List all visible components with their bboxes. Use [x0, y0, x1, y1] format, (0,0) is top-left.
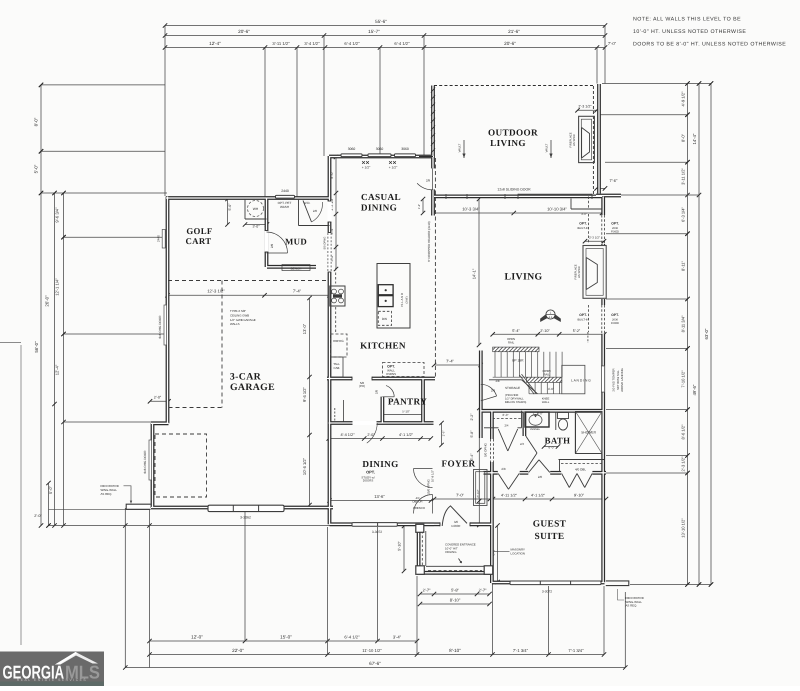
svg-text:OVENS: OVENS [386, 372, 396, 376]
garage side door 2440 [162, 230, 165, 249]
svg-text:8'-11": 8'-11" [680, 260, 685, 271]
right wing wall [606, 581, 629, 586]
svg-text:2440: 2440 [157, 235, 161, 242]
svg-text:8x8 OHG DOOR: 8x8 OHG DOOR [143, 450, 147, 474]
svg-text:(9'H): (9'H) [359, 384, 365, 388]
svg-text:OPT.: OPT. [579, 313, 587, 317]
svg-text:10'-8 1/2": 10'-8 1/2" [431, 470, 435, 482]
left dimension columns [40, 85, 42, 526]
svg-text:1/2" GWB GARAGE: 1/2" GWB GARAGE [230, 318, 256, 322]
outdoor fireplace dim [578, 109, 597, 111]
svg-text:SHOWER: SHOWER [581, 431, 596, 435]
bath vestibule door V [529, 460, 539, 473]
sliding door panels [518, 194, 592, 196]
opening jamb caps [351, 377, 353, 381]
5/0 opening dashes guest wall [489, 439, 491, 462]
svg-text:2'-3 1/2": 2'-3 1/2" [578, 105, 592, 109]
svg-text:+ 1/2": + 1/2" [389, 166, 398, 170]
svg-text:3060: 3060 [348, 147, 356, 151]
guest closet bifold VV [562, 474, 570, 488]
casual dining interior dims [335, 157, 337, 269]
svg-text:GOLF: GOLF [186, 226, 212, 236]
dining windows 3-3072 [352, 523, 397, 527]
svg-text:KITCHEN: KITCHEN [360, 341, 406, 351]
svg-text:2'-7": 2'-7" [423, 588, 431, 593]
svg-text:4'-1 1/2": 4'-1 1/2" [531, 493, 546, 497]
svg-text:WALLS: WALLS [230, 322, 240, 326]
right horizontal dim lines [602, 83, 711, 85]
door golf cart to mud [267, 232, 288, 253]
svg-text:6'-3 1/4": 6'-3 1/4" [680, 207, 685, 222]
svg-text:6'-0": 6'-0" [503, 413, 509, 417]
svg-text:W.D.: W.D. [304, 201, 311, 205]
svg-text:VESSEL: VESSEL [530, 428, 541, 431]
svg-text:5'-2": 5'-2" [573, 329, 581, 333]
wd closet lines [298, 199, 300, 226]
svg-text:DBL DR: DBL DR [413, 501, 423, 504]
svg-text:MUD: MUD [285, 237, 307, 247]
svg-text:7'-4": 7'-4" [446, 358, 454, 363]
svg-text:AS SPEC: AS SPEC [573, 134, 576, 146]
kitchen nook divider [343, 400, 345, 422]
svg-text:DINING: DINING [362, 459, 398, 469]
svg-text:12x8 SLIDING DOOR: 12x8 SLIDING DOOR [497, 188, 531, 192]
svg-text:CART: CART [185, 236, 211, 246]
svg-text:UP 19R: UP 19R [512, 359, 524, 363]
svg-text:BENCH: BENCH [291, 266, 302, 270]
svg-text:DOORS: DOORS [363, 479, 374, 483]
kitchen nook dim row [329, 438, 431, 440]
svg-text:10'-10 3/4": 10'-10 3/4" [547, 206, 567, 211]
svg-text:2'-3 1/2": 2'-3 1/2" [589, 236, 600, 240]
stair dims [493, 333, 605, 335]
svg-text:WALL: WALL [542, 401, 550, 404]
section marker diamond [546, 310, 555, 319]
svg-text:9'-6 3/4": 9'-6 3/4" [55, 207, 60, 223]
svg-text:CEILING GWB: CEILING GWB [230, 313, 249, 317]
svg-text:FOYER: FOYER [442, 459, 476, 469]
svg-text:+5'-1/2": +5'-1/2" [477, 489, 480, 498]
svg-text:DINING: DINING [361, 203, 397, 213]
svg-text:LIVING: LIVING [490, 138, 526, 148]
svg-text:4'-6": 4'-6" [548, 387, 554, 391]
svg-text:RAIL: RAIL [508, 341, 515, 345]
garage car bay dashed rect [155, 434, 207, 497]
casual dining windows 3060 [341, 154, 362, 157]
corner niche living NE [570, 199, 572, 210]
garage bottom door band [208, 505, 284, 511]
svg-text:2'-3 1/2": 2'-3 1/2" [680, 456, 685, 471]
top extension lines [164, 26, 166, 197]
range [330, 286, 345, 306]
svg-text:2'-0": 2'-0" [154, 395, 162, 399]
svg-text:2/4: 2/4 [505, 424, 509, 428]
svg-text:VAULT: VAULT [458, 143, 462, 152]
wd closet door [303, 201, 312, 223]
svg-text:OPT.: OPT. [611, 313, 619, 317]
wd closet top bath [493, 418, 522, 420]
right dimension columns [687, 84, 689, 585]
svg-text:2/4: 2/4 [520, 442, 524, 446]
door opening gaps (white) [265, 231, 269, 253]
svg-text:3'-11 1/2": 3'-11 1/2" [272, 41, 290, 46]
svg-text:55'-6": 55'-6" [375, 19, 387, 24]
svg-text:7'-1 3/4": 7'-1 3/4" [513, 648, 529, 653]
svg-text:6'-4 1/2": 6'-4 1/2" [344, 41, 360, 46]
svg-text:GARAGE: GARAGE [230, 382, 275, 393]
storage door [481, 384, 497, 396]
svg-text:5'-0": 5'-0" [228, 203, 232, 211]
opt wall ovens [383, 363, 425, 377]
svg-text:PANTRY: PANTRY [388, 397, 427, 407]
vault arrows [463, 140, 465, 158]
svg-text:14'-4": 14'-4" [692, 133, 697, 144]
svg-text:12'-0": 12'-0" [191, 634, 203, 639]
svg-text:8'-0": 8'-0" [680, 133, 685, 142]
svg-text:5/0 OPNG: 5/0 OPNG [323, 237, 326, 250]
svg-text:12'-4": 12'-4" [209, 41, 221, 46]
svg-text:BELOW STAIRS): BELOW STAIRS) [505, 401, 526, 404]
svg-text:1/2" DRYWALL: 1/2" DRYWALL [505, 397, 524, 400]
svg-text:3060: 3060 [376, 147, 384, 151]
svg-text:11'-10 1/2": 11'-10 1/2" [362, 648, 382, 653]
svg-text:(PROVIDE: (PROVIDE [505, 394, 518, 397]
svg-text:BUILT-IN: BUILT-IN [577, 319, 588, 322]
svg-text:LIVING: LIVING [504, 272, 542, 283]
svg-text:10'-6 1/2": 10'-6 1/2" [302, 457, 307, 475]
porch dimension rows [420, 593, 490, 595]
svg-text:13'-0": 13'-0" [302, 323, 307, 334]
svg-text:5/0 OPNG: 5/0 OPNG [484, 442, 488, 456]
front entry door peak [442, 506, 467, 526]
left wing wall [126, 504, 150, 509]
svg-text:9'-6 1/2": 9'-6 1/2" [302, 387, 307, 402]
garage interior dims [168, 294, 330, 296]
svg-text:49'-6": 49'-6" [692, 384, 697, 395]
property line left [20, 345, 22, 645]
foyer-bath dim row [434, 498, 606, 500]
svg-text:20'-6": 20'-6" [238, 29, 250, 34]
svg-text:2/8: 2/8 [496, 379, 500, 383]
svg-text:DOORS TO BE 8'-0" HT. UNL: DOORS TO BE 8'-0" HT. UNLESS NOTED OTHER… [633, 42, 786, 48]
thin wall segment CD top right [419, 156, 433, 158]
svg-text:REAL ESTATE SERVICES: REAL ESTATE SERVICES [17, 678, 87, 682]
left bottom small dims [48, 483, 50, 526]
storage under stairs [489, 379, 522, 381]
living dims [434, 212, 603, 214]
svg-text:5'-0": 5'-0" [48, 485, 53, 493]
svg-text:2440: 2440 [281, 189, 289, 193]
door casual dining to living [417, 183, 433, 190]
svg-text:56'-0": 56'-0" [34, 341, 39, 353]
svg-text:4'-4 1/2": 4'-4 1/2" [340, 433, 355, 437]
svg-text:AS REQ.: AS REQ. [626, 604, 638, 608]
living fireplace [583, 246, 606, 299]
svg-text:5'-4": 5'-4" [512, 329, 520, 333]
svg-text:WH: WH [253, 207, 259, 211]
guest suite windows [510, 581, 601, 585]
svg-text:4'-9 1/2": 4'-9 1/2" [680, 91, 685, 106]
svg-text:7'-0": 7'-0" [456, 492, 464, 497]
svg-text:DOOR: DOOR [452, 524, 461, 528]
svg-text:10'-0" HT. UNLESS NOTED OT: 10'-0" HT. UNLESS NOTED OTHERWISE [633, 29, 746, 35]
svg-text:6'-4 1/2": 6'-4 1/2" [394, 41, 410, 46]
mud window 2440 [276, 195, 295, 198]
svg-text:4'-11 1/2": 4'-11 1/2" [501, 493, 518, 497]
svg-text:2'-2": 2'-2" [470, 413, 474, 421]
svg-text:FRENCH: FRENCH [413, 506, 425, 510]
dining interior dim [330, 500, 432, 502]
svg-text:15'-7": 15'-7" [368, 29, 380, 34]
svg-text:2/8: 2/8 [501, 467, 505, 471]
svg-text:7'-0": 7'-0" [608, 41, 617, 46]
svg-text:2636: 2636 [612, 319, 619, 322]
hall dim line [478, 408, 480, 525]
svg-text:1'-4": 1'-4" [418, 204, 421, 209]
garage overhead doors on left wall [164, 305, 167, 345]
svg-text:5'-8": 5'-8" [470, 430, 474, 438]
svg-text:3-CAR: 3-CAR [230, 372, 262, 383]
fridge [331, 334, 348, 357]
svg-text:REFRG: REFRG [333, 339, 344, 343]
outdoor living fireplace [579, 116, 595, 162]
svg-text:2/8: 2/8 [491, 389, 495, 393]
svg-text:3'-11 1/2": 3'-11 1/2" [680, 168, 685, 185]
svg-text:SUITE: SUITE [535, 532, 565, 542]
svg-text:20'-6": 20'-6" [504, 41, 516, 46]
french doors dining [414, 469, 433, 488]
svg-text:8'-6 1/2": 8'-6 1/2" [680, 424, 685, 439]
svg-text:2/8: 2/8 [538, 475, 542, 479]
pantry door [386, 386, 394, 397]
svg-text:CAB: CAB [334, 366, 340, 370]
svg-text:BUILT-IN: BUILT-IN [577, 227, 588, 230]
svg-text:LOCATION: LOCATION [511, 551, 525, 555]
svg-text:FIXED: FIXED [611, 231, 619, 234]
GeorgiaMLS logo [0, 652, 104, 687]
svg-text:3'-0": 3'-0" [252, 225, 260, 229]
svg-text:I S L A N D: I S L A N D [400, 293, 404, 307]
svg-text:TYPE-X 5/8": TYPE-X 5/8" [230, 309, 246, 313]
svg-text:9'-10": 9'-10" [574, 492, 585, 497]
svg-text:GUEST: GUEST [533, 520, 567, 530]
left horizontal dim lines [41, 84, 165, 86]
svg-text:AS REQ.: AS REQ. [101, 492, 113, 496]
svg-text:STORAGE: STORAGE [505, 386, 520, 390]
svg-text:5'-0": 5'-0" [34, 164, 39, 173]
water heater [248, 201, 264, 217]
svg-text:OPT.: OPT. [579, 222, 587, 226]
svg-text:2/8: 2/8 [375, 390, 379, 394]
foyer width dim [434, 364, 481, 366]
svg-text:4.1: 4.1 [549, 316, 553, 319]
stair window right wall [601, 366, 604, 392]
svg-text:3'-0": 3'-0" [581, 212, 587, 216]
svg-text:VAULT: VAULT [545, 143, 549, 152]
svg-text:6'-4 1/2": 6'-4 1/2" [344, 634, 360, 639]
outdoor living left wall (screened) [151, 84, 621, 583]
bottom extension lines [124, 508, 126, 668]
svg-text:FIXED: FIXED [611, 322, 619, 325]
svg-text:AS SPEC: AS SPEC [578, 266, 581, 278]
svg-text:BATH: BATH [545, 436, 571, 446]
svg-text:26'-0": 26'-0" [45, 295, 50, 307]
svg-text:OPT.: OPT. [366, 469, 375, 474]
svg-text:+ 1/2": + 1/2" [362, 166, 371, 170]
hatch ticks on outdoor living left wall [431, 87, 435, 92]
guest closet box [559, 459, 605, 461]
svg-text:6'-0": 6'-0" [549, 446, 555, 450]
svg-text:7'-1 3/4": 7'-1 3/4" [568, 648, 584, 653]
kitchen counter dashed [335, 268, 337, 284]
svg-text:8'-0": 8'-0" [537, 411, 543, 415]
outdoor living top dashed wall [434, 85, 593, 87]
wall jog dim right [597, 187, 606, 189]
svg-text:2'-0": 2'-0" [34, 514, 42, 518]
shower [576, 412, 603, 454]
svg-text:10'-3 3/4": 10'-3 3/4" [462, 206, 480, 211]
mud small dims [245, 224, 267, 226]
porch right dim [497, 526, 499, 583]
svg-text:67'-6": 67'-6" [369, 661, 381, 666]
svg-text:DW: DW [382, 317, 387, 321]
svg-text:OUTDOOR: OUTDOOR [488, 128, 538, 138]
svg-text:63'-0": 63'-0" [704, 328, 709, 339]
stair treads [494, 352, 496, 377]
svg-text:12'-4": 12'-4" [55, 364, 60, 375]
bath inner door chevron [526, 436, 537, 453]
porch left dim [403, 526, 405, 571]
svg-text:(3'x8'): (3'x8') [406, 296, 409, 303]
svg-text:2/8: 2/8 [426, 179, 431, 183]
svg-text:6" DROPPED HEADER (3x10): 6" DROPPED HEADER (3x10) [427, 221, 431, 262]
svg-text:2636: 2636 [612, 227, 619, 230]
svg-text:2/8: 2/8 [313, 209, 317, 213]
svg-text:12'-1 1/4": 12'-1 1/4" [55, 278, 60, 296]
svg-text:8'-0": 8'-0" [34, 117, 39, 126]
svg-text:15'-0": 15'-0" [280, 634, 292, 639]
svg-text:WASH: WASH [280, 205, 289, 209]
svg-text:5'-8": 5'-8" [451, 588, 459, 593]
svg-text:3-3062: 3-3062 [240, 516, 251, 520]
svg-text:21'-6": 21'-6" [508, 29, 520, 34]
svg-text:2'-7": 2'-7" [479, 588, 487, 593]
landing [562, 365, 585, 394]
svg-text:14'-1": 14'-1" [472, 268, 477, 279]
sidelight window foyer [474, 470, 488, 506]
opt door dashes kitchen nook [334, 408, 336, 421]
svg-text:12'-3 1/2": 12'-3 1/2" [207, 289, 225, 294]
svg-text:RAIL: RAIL [543, 372, 550, 376]
svg-text:5'-10": 5'-10" [402, 410, 410, 414]
svg-text:3-3072: 3-3072 [372, 530, 382, 534]
svg-text:3060: 3060 [401, 147, 409, 151]
svg-text:L A N D I N G: L A N D I N G [571, 379, 591, 383]
svg-text:CEILING: CEILING [445, 550, 457, 554]
opt fixed window dashes on right wall [601, 215, 603, 244]
svg-text:2/8: 2/8 [270, 244, 274, 249]
opt built-in dashed fronts [588, 214, 590, 244]
svg-text:8x8 OHG DOOR: 8x8 OHG DOOR [158, 315, 162, 339]
dropped header dashed line [434, 158, 436, 377]
svg-text:5'-10": 5'-10" [398, 541, 402, 551]
svg-text:3-3072: 3-3072 [542, 590, 552, 594]
svg-text:4'-1 1/2": 4'-1 1/2" [399, 433, 414, 437]
svg-text:3'-4": 3'-4" [393, 634, 402, 639]
svg-text:7'-10 1/2": 7'-10 1/2" [680, 370, 685, 388]
svg-text:4/0 DBL: 4/0 DBL [575, 468, 586, 472]
svg-text:2'-10": 2'-10" [540, 329, 550, 333]
svg-text:NOTE: ALL WALLS THIS LEVEL: NOTE: ALL WALLS THIS LEVEL TO BE [633, 17, 741, 23]
svg-text:1'-6": 1'-6" [442, 431, 446, 437]
svg-text:13'-6": 13'-6" [374, 494, 385, 499]
svg-text:7'-4": 7'-4" [293, 289, 302, 294]
svg-text:OPT.: OPT. [611, 222, 619, 226]
garage ceiling dashed lines [168, 280, 329, 282]
svg-text:8'-10": 8'-10" [449, 648, 461, 653]
top dimension lines [165, 25, 605, 27]
svg-text:CASUAL: CASUAL [361, 192, 401, 202]
stair break line [520, 375, 535, 394]
pantry shelf line [384, 414, 423, 416]
bottom dimension rows [150, 640, 418, 642]
kitchen island [377, 264, 410, 329]
svg-text:3'-4 1/2": 3'-4 1/2" [304, 41, 320, 46]
svg-text:22'-0": 22'-0" [232, 648, 244, 653]
svg-text:13'-10 1/2": 13'-10 1/2" [680, 518, 685, 538]
svg-text:7'-6": 7'-6" [610, 178, 618, 183]
svg-text:8'-10": 8'-10" [450, 598, 461, 603]
svg-text:8'-11 3/4": 8'-11 3/4" [680, 315, 685, 332]
tall cab [331, 357, 344, 377]
svg-text:ABOVE LANDING: ABOVE LANDING [620, 368, 624, 392]
guest suite entry door V [498, 474, 508, 490]
bath fixtures [525, 412, 549, 427]
